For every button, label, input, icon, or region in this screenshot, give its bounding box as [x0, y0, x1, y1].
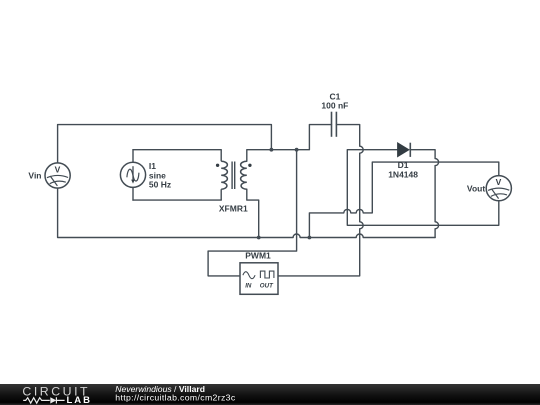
wire I1 top stub [132, 150, 134, 163]
svg-text:PWM1: PWM1 [245, 250, 271, 260]
label I1 [149, 161, 171, 190]
wire diode D1 cathode net down to bottom rail (hops over Vout wires) [410, 150, 438, 238]
svg-text:V: V [55, 165, 61, 175]
svg-text:Vin: Vin [28, 171, 41, 181]
wire Vout top net H1 down to bottom rail junction (hops over two verticals) [309, 162, 498, 237]
svg-text:http://circuitlab.com/cm2rz3c: http://circuitlab.com/cm2rz3c [115, 392, 236, 402]
primary coil [221, 161, 227, 189]
wire diode D1 anode net to Vout bottom [347, 150, 499, 226]
core [232, 162, 235, 190]
wire bottom rail from Vin bottom (hops over two verticals) [58, 188, 436, 237]
svg-text:50 Hz: 50 Hz [149, 180, 171, 190]
label D1 [388, 160, 418, 180]
source I1 sine current source [120, 162, 145, 187]
wire I1 loop box top [133, 149, 221, 151]
svg-text:Vout: Vout [467, 183, 485, 193]
voltmeter Vin [45, 163, 70, 188]
svg-text:LAB: LAB [67, 395, 93, 405]
label C1 [321, 91, 348, 110]
junction node H1 / rail [308, 236, 312, 240]
diode D1 [398, 143, 411, 157]
phase dot secondary [248, 164, 251, 167]
junction node at top rail / W1 [270, 148, 274, 152]
svg-text:D1: D1 [398, 160, 409, 170]
svg-text:OUT: OUT [260, 283, 274, 290]
PWM block PWM1 [240, 263, 278, 295]
transformer XFMR1 [221, 150, 247, 200]
footer CircuitLab logo [22, 384, 92, 405]
capacitor C1 [332, 112, 337, 137]
voltmeter Vout [486, 176, 511, 201]
wire PWM IN net from W1 junction [208, 150, 297, 276]
wire top rail from Vin top to node row [58, 125, 272, 163]
wire I1 loop box bottom [133, 199, 221, 201]
wire secondary-top net W1 with capacitor C1 left lead [247, 125, 332, 162]
wire I1 bottom stub [132, 187, 134, 200]
junction node secondary bottom / rail [257, 236, 261, 240]
svg-text:IN: IN [245, 283, 252, 290]
secondary coil [241, 161, 247, 189]
wire capacitor C1 right lead down to PWM OUT (hops over two wires) [278, 125, 363, 276]
junction node W1 / PWM IN [295, 148, 299, 152]
svg-text:XFMR1: XFMR1 [219, 203, 248, 213]
svg-text:V: V [496, 177, 502, 187]
primary lead stubs [220, 150, 222, 200]
svg-text:100 nF: 100 nF [321, 100, 348, 110]
wire transformer secondary bottom to rail [247, 189, 259, 237]
svg-text:1N4148: 1N4148 [388, 169, 418, 179]
footer bar [0, 384, 540, 405]
phase dot primary [216, 164, 219, 167]
